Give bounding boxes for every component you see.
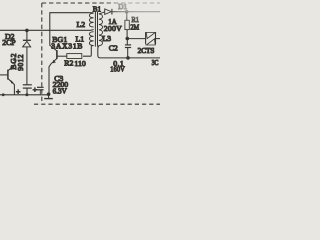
wire: left top rail y=30.3 (0, 29, 91, 31)
svg-text:2M: 2M (130, 23, 139, 32)
wire: R2 to L1 bottom riser (83, 47, 91, 57)
wire: C2 top lead (126, 39, 128, 45)
wire: D1 to right edge (112, 11, 160, 13)
node A: junction dot on top rail at D2 (25, 29, 29, 33)
wire: base to R2 (58, 55, 68, 57)
node: mid right junction (126, 37, 130, 41)
scan fade top-right (110, 0, 194, 19)
wire: mid wire to DIAC (127, 38, 145, 40)
node: bottom rail junction (126, 56, 130, 60)
svg-text:2CP: 2CP (2, 38, 16, 47)
wire: D2 cathode down to C1 (26, 47, 28, 84)
transformer core (95, 12, 97, 47)
wire: rail to L1/L2 junction (91, 29, 94, 32)
wire: L1 bottom link (91, 46, 93, 47)
capacitor C2 (125, 45, 131, 48)
svg-text:200V: 200V (104, 24, 122, 33)
wire: DIAC to right edge (155, 38, 160, 40)
dashed enclosure left border (41, 3, 43, 101)
wire: R1 bottom lead (126, 30, 128, 38)
wire: L3 top lead (99, 12, 105, 14)
svg-text:3C: 3C (152, 59, 159, 67)
svg-text:B1: B1 (93, 6, 102, 14)
svg-text:L2: L2 (77, 20, 86, 29)
node: top right junction (125, 10, 129, 14)
capacitor C3 (37, 87, 44, 94)
svg-text:L3: L3 (102, 34, 111, 43)
transformer B1 winding L1 (89, 32, 93, 46)
wire: bottom left rail (0, 94, 49, 96)
wire: L3 bottom lead and bottom right rail (98, 46, 160, 58)
wire: R1 top lead (126, 12, 128, 20)
svg-text:2CTS: 2CTS (138, 47, 155, 55)
wire: D2 branch vertical (26, 30, 28, 40)
svg-text:9012: 9012 (16, 54, 25, 71)
wire: L2 top lead + collector vertical (50, 13, 90, 51)
transistor Q2 (BG2 9012) (0, 57, 15, 95)
dashed enclosure bottom border (34, 103, 160, 105)
svg-text:160V: 160V (110, 64, 125, 73)
svg-text:110: 110 (74, 59, 86, 68)
svg-text:+: + (33, 85, 37, 94)
dashed enclosure top border (42, 2, 160, 4)
svg-text:C2: C2 (109, 44, 118, 53)
wire: winding top connect (90, 12, 94, 14)
wire: C2 bottom lead (127, 48, 129, 58)
node: left rail terminal (2, 93, 5, 96)
transformer B1 winding L2 (89, 13, 93, 27)
capacitor C1 (23, 85, 32, 88)
node: rail end junction (47, 92, 51, 96)
transistor Q1 (BG1) (49, 50, 57, 94)
diode D1 (105, 9, 112, 15)
node: C1 rail junction (25, 93, 28, 96)
svg-text:6.3V: 6.3V (53, 87, 68, 96)
resistor R2 (67, 54, 82, 59)
ground stub under rail node (44, 94, 53, 98)
resistor R1 (125, 20, 129, 29)
svg-text:L1: L1 (76, 34, 85, 43)
wire: C1 bottom to rail (26, 88, 28, 95)
svg-text:R2: R2 (64, 59, 73, 68)
DIAC 2CTS (146, 32, 156, 45)
transformer B1 winding L3 (99, 14, 103, 46)
diode D2 (23, 40, 31, 47)
